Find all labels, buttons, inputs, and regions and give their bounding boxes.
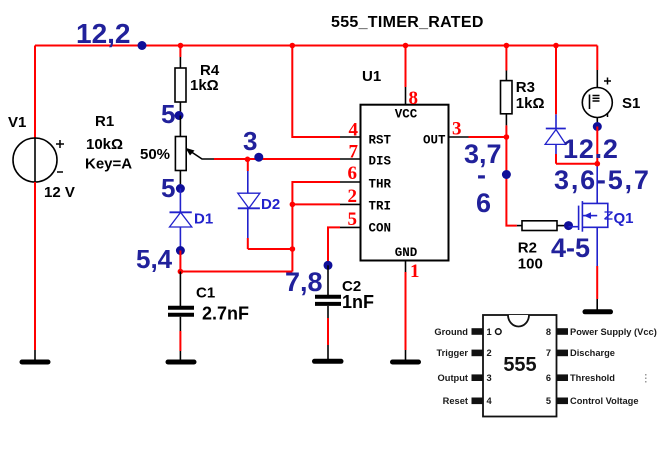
- junction dot D2 bottom: [290, 246, 296, 252]
- svg-text:GND: GND: [395, 246, 418, 260]
- svg-text:Trigger: Trigger: [436, 348, 468, 358]
- svg-text:6: 6: [546, 373, 551, 383]
- svg-text:12 V: 12 V: [44, 184, 75, 201]
- dip pin stub 4: [472, 398, 484, 405]
- pin 3 stub: [449, 136, 469, 138]
- svg-text:5: 5: [161, 99, 175, 129]
- svg-text:3,6-5,7: 3,6-5,7: [554, 165, 651, 195]
- svg-text:5: 5: [546, 396, 551, 406]
- pin stubs U1 left: [340, 137, 361, 227]
- junction dot pin8 rail: [403, 43, 409, 49]
- svg-text:12,2: 12,2: [76, 18, 131, 49]
- svg-text:10kΩ: 10kΩ: [86, 136, 123, 153]
- dip pin stub 8: [557, 328, 569, 335]
- wire top rail: [35, 45, 597, 47]
- svg-text:50%: 50%: [140, 146, 170, 163]
- dip pin stub 2: [472, 350, 484, 357]
- dip pin stub 1: [472, 328, 484, 335]
- svg-text:1kΩ: 1kΩ: [516, 95, 545, 112]
- junction dot R3 rail: [504, 43, 510, 49]
- wire pot top: [179, 116, 181, 137]
- svg-text:Q1: Q1: [614, 210, 634, 227]
- pin 1 stub: [405, 261, 407, 273]
- wire D1 top: [179, 189, 181, 213]
- wire bottom horizontal: [180, 271, 292, 273]
- node 5 dot: [175, 111, 184, 120]
- resistor R4: [175, 62, 220, 102]
- diode D3 (flyback): [545, 129, 566, 145]
- wire R4 bottom: [179, 102, 181, 116]
- svg-text:5,4: 5,4: [136, 244, 173, 274]
- svg-text:6: 6: [476, 188, 491, 218]
- svg-text:8: 8: [409, 88, 419, 109]
- svg-text:3: 3: [452, 119, 462, 140]
- wire D1 bottom: [179, 227, 181, 251]
- source S1: [596, 46, 598, 71]
- svg-text:4: 4: [349, 120, 359, 141]
- transistor Q1 (MOSFET): [569, 164, 613, 266]
- svg-text:1nF: 1nF: [342, 292, 374, 312]
- svg-text:2.7nF: 2.7nF: [202, 304, 249, 324]
- svg-text:7: 7: [546, 348, 551, 358]
- svg-text:7,8: 7,8: [285, 267, 323, 297]
- svg-text:1: 1: [487, 327, 492, 337]
- svg-text:Reset: Reset: [443, 396, 468, 406]
- svg-text:3: 3: [243, 126, 257, 156]
- wire D2 top: [247, 159, 249, 171]
- junction dot C1: [178, 269, 184, 275]
- resistor R3: [505, 46, 507, 71]
- svg-text:555: 555: [503, 354, 536, 376]
- svg-text:Key=A: Key=A: [85, 156, 132, 173]
- wire branch to diode: [556, 163, 597, 165]
- svg-text:3: 3: [487, 373, 492, 383]
- dip pin stub 3: [472, 374, 484, 381]
- svg-text:Threshold: Threshold: [570, 373, 615, 383]
- wire RST: [292, 46, 340, 138]
- ground (U1 pin1): [393, 360, 419, 365]
- svg-text:CON: CON: [369, 222, 392, 236]
- junction dot D2 top: [245, 157, 251, 163]
- wire D2 bottom: [247, 208, 249, 238]
- wire THR/TRI vertical: [292, 182, 340, 272]
- wire Q1 source to ground: [596, 266, 598, 299]
- svg-text:Control Voltage: Control Voltage: [570, 396, 639, 406]
- node 5,4 dot: [176, 246, 185, 255]
- svg-text:DIS: DIS: [369, 155, 392, 169]
- svg-text:Discharge: Discharge: [570, 348, 615, 358]
- svg-text:Ground: Ground: [434, 327, 468, 337]
- junction dot S1 bottom: [595, 161, 601, 167]
- op-amp U1 (555 timer box): [361, 68, 449, 261]
- node 5 dot (lower): [176, 184, 185, 193]
- svg-text:U1: U1: [362, 68, 381, 85]
- svg-text:6: 6: [348, 163, 358, 184]
- node 7,8 dot: [324, 261, 333, 270]
- svg-text:OUT: OUT: [423, 134, 446, 148]
- wire CON to C2 / capacitor C2: [327, 265, 329, 296]
- ground (C1): [168, 360, 194, 365]
- wire DIS from wiper: [214, 158, 340, 160]
- svg-text:R3: R3: [516, 79, 535, 96]
- svg-text:D2: D2: [261, 196, 280, 213]
- dip pin stub 5: [557, 398, 569, 405]
- svg-text:100: 100: [518, 256, 543, 273]
- wire pot bottom: [179, 171, 181, 189]
- node 4-5 dot: [564, 221, 573, 230]
- svg-text:D1: D1: [194, 211, 213, 228]
- node 3 dot: [254, 153, 263, 162]
- svg-text:2: 2: [348, 186, 358, 207]
- svg-text:7: 7: [349, 142, 359, 163]
- pin 8 stub: [405, 46, 407, 88]
- svg-text:THR: THR: [369, 178, 392, 192]
- svg-text:2: 2: [487, 348, 492, 358]
- wire R3 bottom vertical: [506, 137, 517, 226]
- junction dot RST rail: [290, 43, 296, 49]
- 555 pinout diagram: [434, 315, 656, 417]
- svg-text:-: -: [477, 160, 486, 190]
- svg-text:R1: R1: [95, 113, 114, 130]
- capacitor C1: [168, 285, 249, 324]
- ground (C2): [315, 359, 342, 364]
- svg-text:5: 5: [348, 209, 358, 230]
- svg-text:5: 5: [161, 173, 175, 203]
- potentiometer R1: [85, 113, 214, 173]
- ground (Q1): [585, 309, 611, 314]
- svg-text:V1: V1: [8, 114, 26, 131]
- svg-text:S1: S1: [622, 95, 640, 112]
- ground (V1): [22, 350, 48, 362]
- wire C1 bottom: [179, 317, 181, 331]
- junction dot (blue) top rail: [138, 41, 147, 50]
- diode D2: [238, 193, 280, 213]
- svg-text:TRI: TRI: [369, 200, 392, 214]
- wire diode column: [555, 46, 557, 115]
- svg-text:Output: Output: [438, 373, 468, 383]
- svg-text:Power Supply (Vcc): Power Supply (Vcc): [570, 327, 657, 337]
- junction dot R4 top: [178, 43, 184, 49]
- svg-text:RST: RST: [369, 134, 392, 148]
- wire V1 top: [34, 46, 36, 139]
- junction dot TRI: [290, 202, 296, 208]
- svg-text:R2: R2: [518, 240, 537, 257]
- resistor R2: [517, 225, 522, 227]
- svg-text:12.2: 12.2: [563, 134, 619, 164]
- svg-text:1kΩ: 1kΩ: [190, 77, 219, 94]
- node 12.2 dot: [593, 122, 602, 131]
- junction dot diode rail: [553, 43, 559, 49]
- svg-text:1: 1: [410, 261, 420, 282]
- svg-text:555_TIMER_RATED: 555_TIMER_RATED: [331, 14, 484, 31]
- wire CON: [328, 227, 340, 265]
- wire TRI: [292, 203, 340, 205]
- wire R4 top: [179, 46, 181, 58]
- dip pin stub 7: [557, 350, 569, 357]
- voltage source V1: [8, 114, 75, 201]
- svg-text:8: 8: [546, 327, 551, 337]
- wire V1 bottom: [34, 182, 36, 350]
- dip pin stub 6: [557, 374, 569, 381]
- svg-text:VCC: VCC: [395, 108, 418, 122]
- svg-text:4: 4: [487, 396, 493, 406]
- wire to C1 junction: [179, 251, 181, 272]
- wire C1 top: [179, 272, 181, 307]
- svg-text:C1: C1: [196, 285, 215, 302]
- node 3,7-6 dot: [502, 170, 511, 179]
- svg-text:4-5: 4-5: [551, 233, 590, 263]
- junction dot OUT/R3: [504, 134, 510, 140]
- stray dotted mark: [645, 374, 647, 383]
- diode D1: [170, 211, 214, 228]
- dip pin1 indicator: [496, 329, 502, 335]
